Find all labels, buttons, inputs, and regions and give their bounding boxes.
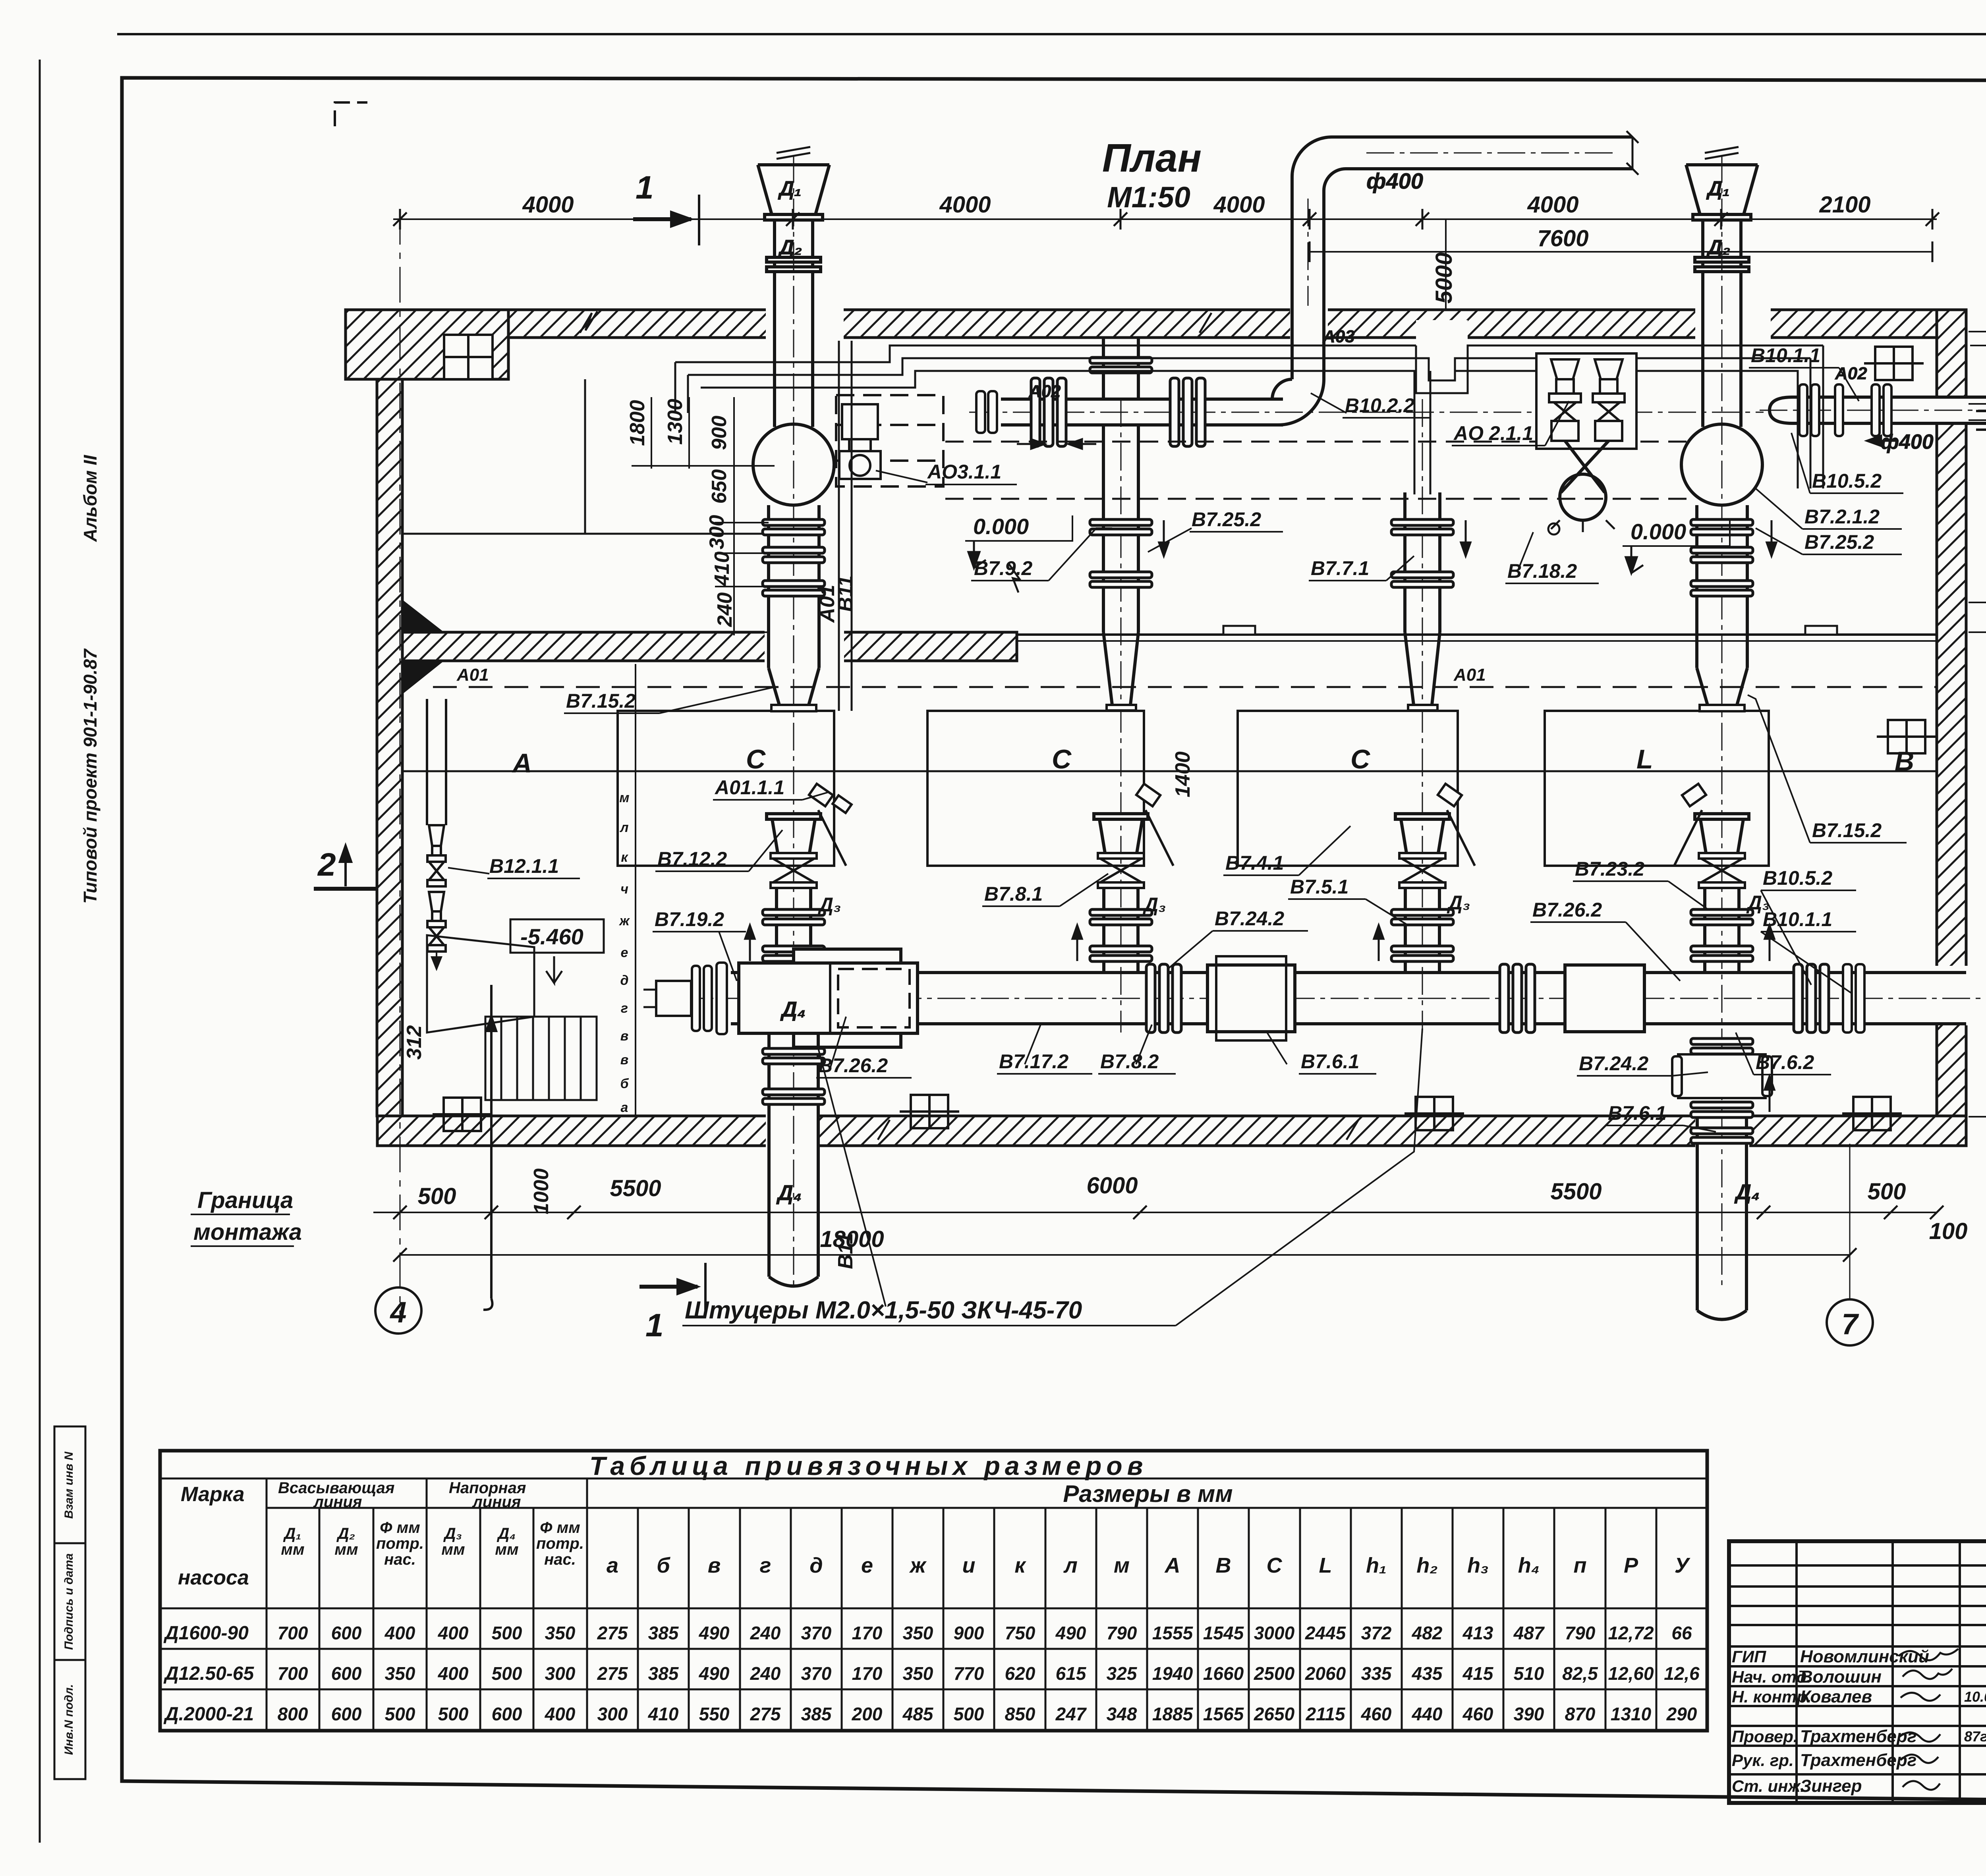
col2 riser from top pipe <box>1103 425 1138 632</box>
svg-text:400: 400 <box>438 1663 469 1684</box>
svg-text:в: в <box>620 1029 629 1044</box>
svg-text:4: 4 <box>389 1296 406 1329</box>
pump H1 volute circle <box>753 424 834 505</box>
shtutsery text <box>682 1029 1422 1326</box>
svg-text:500: 500 <box>438 1704 469 1724</box>
svg-text:0.000: 0.000 <box>1631 519 1686 544</box>
svg-text:А02: А02 <box>1835 364 1867 383</box>
table column letters <box>607 1554 1690 1577</box>
svg-text:B7.9.2: B7.9.2 <box>974 557 1033 579</box>
svg-text:М1:50: М1:50 <box>1107 181 1190 214</box>
col1 flange pair 3 <box>763 581 825 596</box>
svg-text:а: а <box>621 1100 628 1115</box>
svg-text:к: к <box>621 850 628 865</box>
bay rect C2 <box>927 711 1144 866</box>
svg-text:350: 350 <box>545 1623 576 1643</box>
label AO2.1.1 <box>1452 401 1569 446</box>
signature roles <box>1732 1647 1812 1795</box>
svg-text:490: 490 <box>1055 1623 1086 1643</box>
svg-text:B7.15.2: B7.15.2 <box>1812 819 1882 841</box>
col2 flange pair 4 <box>1090 909 1152 925</box>
label B12.1.1 <box>448 855 580 878</box>
svg-text:870: 870 <box>1565 1704 1596 1724</box>
svg-text:А01: А01 <box>456 665 489 685</box>
svg-text:нас.: нас. <box>384 1551 416 1568</box>
fitting AO3.1.1 <box>839 404 881 479</box>
svg-text:300: 300 <box>597 1704 628 1724</box>
dashed equipment lines <box>945 442 1694 499</box>
pump H4 axis <box>1721 155 1723 1287</box>
svg-text:Зингер: Зингер <box>1800 1776 1862 1796</box>
label B10.5.2 mid <box>1761 867 1856 985</box>
svg-text:413: 413 <box>1462 1623 1493 1643</box>
bottom dim line <box>373 1212 1937 1213</box>
svg-text:400: 400 <box>384 1623 415 1643</box>
svg-text:Д₂: Д₂ <box>1706 236 1730 259</box>
svg-text:312: 312 <box>403 1025 426 1060</box>
svg-text:Марка: Марка <box>181 1483 245 1506</box>
label B7.5.1 <box>1288 876 1408 925</box>
col2 axis <box>1121 399 1122 1033</box>
svg-text:ч: ч <box>620 882 628 897</box>
svg-text:460: 460 <box>1361 1704 1392 1724</box>
top wall <box>346 310 1966 338</box>
label B7.7.1 <box>1309 556 1414 581</box>
subheaders suction <box>281 1519 584 1568</box>
svg-text:Ф мм: Ф мм <box>380 1519 420 1536</box>
col4 flange pair below <box>1691 1128 1753 1143</box>
svg-text:п: п <box>1574 1554 1587 1577</box>
svg-text:66: 66 <box>1671 1623 1692 1643</box>
svg-text:615: 615 <box>1056 1663 1087 1684</box>
svg-text:460: 460 <box>1462 1704 1493 1724</box>
pump H1 axis <box>793 155 794 1287</box>
svg-text:C: C <box>746 744 766 774</box>
col2 flow arrow down <box>1159 520 1169 556</box>
col4 pipe bottom ellipse <box>1697 1310 1746 1320</box>
svg-text:500: 500 <box>492 1623 522 1643</box>
elevation 0.000 col1 <box>965 514 1072 593</box>
label B7.21.2 <box>1756 488 1902 529</box>
bottom wall gap col4 <box>1695 1114 1749 1148</box>
svg-text:240: 240 <box>750 1623 781 1643</box>
col3 flow arrow up <box>1374 925 1383 961</box>
svg-text:490: 490 <box>699 1663 730 1684</box>
svg-text:620: 620 <box>1005 1663 1036 1684</box>
stairs <box>485 1017 597 1100</box>
svg-text:B7.2.1.2: B7.2.1.2 <box>1804 506 1880 528</box>
svg-text:L: L <box>1319 1554 1332 1577</box>
svg-text:мм: мм <box>334 1541 358 1558</box>
right wall gap manifold <box>1934 966 1969 1025</box>
svg-text:385: 385 <box>801 1704 832 1724</box>
col2 pipe to manifold <box>1104 888 1138 973</box>
col3 flange pair 5 <box>1391 946 1453 961</box>
pedestal square right mid <box>1877 720 1936 753</box>
svg-text:г: г <box>621 1001 628 1016</box>
svg-text:А01.1.1: А01.1.1 <box>714 776 784 799</box>
svg-text:10.06: 10.06 <box>1964 1689 1986 1705</box>
svg-text:500: 500 <box>492 1663 522 1684</box>
signature names <box>1800 1647 1929 1796</box>
svg-text:6000: 6000 <box>1086 1173 1138 1199</box>
col3 flow arrow down <box>1461 520 1470 556</box>
suction/pressure data <box>278 1623 576 1643</box>
col2 flow arrow up <box>1072 925 1082 961</box>
svg-text:410: 410 <box>711 552 734 587</box>
svg-text:650: 650 <box>708 469 731 504</box>
col3 flange pair 2 <box>1391 572 1453 587</box>
svg-text:B10.1.1: B10.1.1 <box>1751 344 1820 367</box>
wall corner wedge lower <box>402 661 444 694</box>
svg-text:500: 500 <box>1868 1179 1906 1204</box>
col1 cone B7.15.2 <box>769 668 819 705</box>
col1 pipe to manifold <box>777 888 811 963</box>
col3 bell funnel <box>1395 814 1449 853</box>
pump H1 motor dashed outline <box>836 395 943 486</box>
svg-text:2500: 2500 <box>1254 1663 1295 1684</box>
table header lines <box>267 1507 1707 1509</box>
svg-text:372: 372 <box>1361 1623 1392 1643</box>
label B7.6.2 <box>1736 1033 1831 1075</box>
top dim line <box>393 218 1937 220</box>
svg-text:Д₃: Д₃ <box>1142 894 1166 916</box>
label AO3.1.1 <box>876 461 1017 484</box>
axis 4 extension line <box>400 209 401 1314</box>
svg-text:потр.: потр. <box>536 1535 584 1552</box>
svg-text:12,60: 12,60 <box>1608 1663 1654 1684</box>
label B10.5.2 right <box>1791 433 1903 493</box>
svg-text:B7.25.2: B7.25.2 <box>1804 531 1874 553</box>
svg-text:Типовой проект 901-1-90.87: Типовой проект 901-1-90.87 <box>80 648 100 904</box>
svg-text:монтажа: монтажа <box>193 1219 302 1245</box>
left riser B12.1.1 <box>427 699 446 969</box>
col4 lower pipe <box>1697 1118 1746 1310</box>
svg-text:C: C <box>1052 744 1072 774</box>
svg-text:h₃: h₃ <box>1467 1554 1489 1577</box>
svg-text:1: 1 <box>636 170 654 206</box>
svg-text:B10.2.2: B10.2.2 <box>1345 394 1414 417</box>
col1 lower pipe <box>769 1033 818 1277</box>
svg-text:А: А <box>1164 1554 1180 1577</box>
svg-text:План: План <box>1102 136 1202 180</box>
axis 7 extension line <box>1849 1144 1851 1299</box>
svg-text:1310: 1310 <box>1611 1704 1652 1724</box>
svg-text:500: 500 <box>418 1183 456 1209</box>
svg-text:385: 385 <box>648 1623 679 1643</box>
svg-text:B10.5.2: B10.5.2 <box>1763 867 1832 889</box>
svg-text:385: 385 <box>648 1663 679 1684</box>
pedestal square top right <box>1864 347 1924 380</box>
svg-text:1: 1 <box>645 1307 664 1343</box>
title block outer <box>1729 1541 1986 1803</box>
svg-text:435: 435 <box>1412 1663 1443 1684</box>
col1 suction funnel D1 <box>758 147 829 310</box>
label B7.19.2 <box>653 908 746 981</box>
manifold right couplings <box>1794 964 1829 1033</box>
svg-text:4000: 4000 <box>522 192 574 218</box>
svg-text:Инв.N подл.: Инв.N подл. <box>62 1684 75 1755</box>
svg-text:348: 348 <box>1107 1704 1137 1724</box>
svg-text:Д₁: Д₁ <box>283 1525 301 1542</box>
AO2.1.1 hydrant circle <box>1560 474 1606 520</box>
svg-text:700: 700 <box>278 1663 308 1684</box>
svg-text:2650: 2650 <box>1254 1704 1295 1724</box>
label B7.24.2 left <box>1168 907 1308 969</box>
left margin stamp boxes <box>54 1426 85 1779</box>
svg-text:и: и <box>962 1554 976 1577</box>
col4 pipe to manifold <box>1705 888 1739 973</box>
col4 suction funnel D1 <box>1686 147 1758 310</box>
col4 flow arrow down <box>1767 520 1776 556</box>
svg-text:415: 415 <box>1462 1663 1494 1684</box>
montage boundary line <box>483 985 496 1310</box>
svg-text:370: 370 <box>801 1663 832 1684</box>
svg-text:240: 240 <box>713 593 736 627</box>
svg-text:б: б <box>657 1554 670 1577</box>
grid circle 4 <box>375 1287 421 1334</box>
svg-text:325: 325 <box>1107 1663 1138 1684</box>
svg-text:482: 482 <box>1412 1623 1443 1643</box>
left wall <box>377 379 402 1116</box>
svg-text:АO3.1.1: АO3.1.1 <box>927 461 1001 483</box>
svg-text:C: C <box>1350 744 1370 774</box>
table data row 2 <box>597 1663 1700 1684</box>
col1 pipe bottom ellipse <box>769 1277 818 1286</box>
svg-text:Таблица привязочных раз: Таблица привязочных размеров <box>589 1451 1148 1480</box>
svg-text:170: 170 <box>852 1663 883 1684</box>
section mark 1 bottom <box>639 1263 705 1343</box>
svg-text:мм: мм <box>281 1541 304 1558</box>
svg-text:275: 275 <box>597 1623 628 1643</box>
svg-text:В: В <box>1216 1554 1231 1577</box>
label B7.18.2 <box>1505 532 1599 583</box>
middle wall gap col1 <box>765 630 844 663</box>
svg-text:б: б <box>620 1076 629 1091</box>
manifold junction box mid <box>1207 956 1295 1040</box>
svg-text:У: У <box>1675 1554 1690 1577</box>
right wall gap pipe B10.1.1 <box>1934 396 1969 425</box>
svg-text:h₁: h₁ <box>1366 1554 1387 1577</box>
svg-text:1300: 1300 <box>664 399 687 445</box>
svg-text:нас.: нас. <box>544 1551 576 1568</box>
elevation -5.460 box <box>510 919 604 983</box>
col3 pipe to manifold <box>1405 888 1439 973</box>
col4 below-manifold valve B7.24.2 <box>1672 1038 1772 1117</box>
section mark 1 top <box>633 170 699 245</box>
svg-text:12,72: 12,72 <box>1608 1623 1654 1643</box>
label B7.25.2 col2 <box>1148 508 1283 552</box>
svg-text:B7.25.2: B7.25.2 <box>1192 508 1261 531</box>
svg-text:300: 300 <box>705 515 728 550</box>
col1 flange pair 1 <box>763 519 825 535</box>
left dim chain col1 <box>632 397 775 635</box>
paper top edge <box>117 33 1986 35</box>
svg-text:0.000: 0.000 <box>973 514 1029 539</box>
top wall thick left part <box>346 310 508 379</box>
col3 cone <box>1405 632 1440 705</box>
corner cut mark left <box>335 102 367 126</box>
bottom wall <box>377 1116 1966 1146</box>
svg-text:h₂: h₂ <box>1416 1554 1438 1577</box>
svg-text:770: 770 <box>954 1663 984 1684</box>
svg-text:Ст. инж.: Ст. инж. <box>1732 1777 1805 1795</box>
col1 flow arrow up <box>745 925 755 961</box>
svg-text:200: 200 <box>852 1704 883 1724</box>
svg-text:300: 300 <box>545 1663 576 1684</box>
middle wall <box>402 632 1017 661</box>
svg-text:B7.17.2: B7.17.2 <box>999 1050 1068 1073</box>
svg-text:275: 275 <box>597 1663 628 1684</box>
svg-text:247: 247 <box>1055 1704 1087 1724</box>
elbow riser to wall <box>1292 311 1324 379</box>
svg-text:1565: 1565 <box>1203 1704 1244 1724</box>
A01 dashed line <box>433 686 1937 688</box>
svg-text:потр.: потр. <box>376 1535 424 1552</box>
svg-text:линия: линия <box>313 1493 362 1511</box>
pipe B10.1.1 top right <box>1760 387 1986 433</box>
svg-text:12,6: 12,6 <box>1664 1663 1700 1684</box>
svg-text:B7.19.2: B7.19.2 <box>655 908 724 930</box>
svg-text:790: 790 <box>1107 1623 1137 1643</box>
svg-text:4000: 4000 <box>939 192 991 218</box>
svg-text:600: 600 <box>331 1623 362 1643</box>
svg-text:B7.8.1: B7.8.1 <box>984 883 1043 905</box>
table data row 1 <box>597 1623 1692 1643</box>
col1 A01 drop lines <box>839 341 852 711</box>
svg-text:B7.26.2: B7.26.2 <box>1532 899 1602 921</box>
svg-text:B7.6.1: B7.6.1 <box>1608 1102 1666 1124</box>
svg-text:350: 350 <box>385 1663 415 1684</box>
col1 valve A01.1.1 <box>809 784 852 866</box>
label B7.6.1 left <box>1267 1033 1376 1074</box>
col2 butterfly valve <box>1098 853 1144 888</box>
coupling group 1 <box>1031 378 1066 446</box>
svg-text:600: 600 <box>331 1663 362 1684</box>
svg-text:1545: 1545 <box>1203 1623 1244 1643</box>
svg-text:а: а <box>607 1554 618 1577</box>
col1 discharge pipe <box>769 505 819 668</box>
col1 cone bottom flange <box>771 705 816 711</box>
marka values <box>163 1623 254 1725</box>
svg-text:240: 240 <box>750 1663 781 1684</box>
svg-text:Провер.: Провер. <box>1732 1727 1798 1746</box>
svg-text:Размеры в мм: Размеры в мм <box>1063 1480 1233 1507</box>
svg-text:1660: 1660 <box>1203 1663 1244 1684</box>
svg-text:Д₃: Д₃ <box>817 894 841 916</box>
stub to wall B <box>1969 401 1986 442</box>
top wall notch <box>1416 320 1468 340</box>
svg-text:500: 500 <box>385 1704 415 1724</box>
svg-text:5500: 5500 <box>610 1175 661 1201</box>
svg-text:Альбом II: Альбом II <box>80 455 100 542</box>
label B7.26.2 col1 <box>816 1017 912 1078</box>
col2 bell funnel <box>1094 814 1148 853</box>
svg-text:350: 350 <box>903 1623 933 1643</box>
svg-text:100: 100 <box>1929 1218 1968 1244</box>
col4 cone B7.15.2 <box>1697 668 1747 705</box>
svg-text:h₄: h₄ <box>1518 1554 1540 1577</box>
svg-text:Н. контр.: Н. контр. <box>1732 1687 1812 1706</box>
svg-text:3000: 3000 <box>1254 1623 1295 1643</box>
col3 flange pair 4 <box>1391 909 1453 925</box>
col4 butterfly valve <box>1699 853 1745 888</box>
svg-text:д: д <box>620 973 628 988</box>
svg-text:-5.460: -5.460 <box>520 924 583 949</box>
svg-text:Граница: Граница <box>197 1187 293 1213</box>
svg-text:487: 487 <box>1513 1623 1545 1643</box>
svg-text:750: 750 <box>1005 1623 1036 1643</box>
svg-text:Ф мм: Ф мм <box>540 1519 580 1536</box>
table title row <box>160 1478 1707 1480</box>
col1 bell funnel B7.12.2 <box>767 814 821 853</box>
col4 bell funnel <box>1695 814 1749 853</box>
left margin stamp labels <box>62 1451 75 1755</box>
pedestal squares <box>433 1098 492 1131</box>
manifold junction box mid2 <box>1565 965 1644 1032</box>
manifold left end cap <box>643 963 727 1034</box>
label B10.2.2 <box>1311 393 1430 418</box>
svg-text:1000: 1000 <box>530 1168 553 1214</box>
svg-text:B7.8.2: B7.8.2 <box>1100 1050 1159 1073</box>
second dim line 7600 <box>1310 251 1932 253</box>
svg-text:B7.5.1: B7.5.1 <box>1290 876 1348 898</box>
col4 discharge pipe <box>1697 505 1747 668</box>
svg-text:л: л <box>619 820 628 835</box>
svg-text:ж: ж <box>618 913 630 928</box>
svg-text:800: 800 <box>278 1704 308 1724</box>
elevation 0.000 col3 <box>1623 519 1730 573</box>
label B7.9.2 <box>971 528 1112 581</box>
svg-text:87г.: 87г. <box>1964 1728 1986 1745</box>
svg-text:900: 900 <box>708 416 731 450</box>
svg-text:4000: 4000 <box>1527 192 1578 218</box>
col4 flow arrow up lower <box>1765 1076 1774 1112</box>
svg-text:82,5: 82,5 <box>1562 1663 1598 1684</box>
wall corner wedge upper <box>402 600 444 632</box>
col4 flange pair 5 <box>1691 946 1753 961</box>
svg-text:600: 600 <box>331 1704 362 1724</box>
col1 flange pair 6 <box>763 1048 825 1064</box>
svg-text:370: 370 <box>801 1623 832 1643</box>
svg-text:Нач. отд.: Нач. отд. <box>1732 1668 1811 1686</box>
svg-text:Д1600-90: Д1600-90 <box>163 1623 249 1644</box>
svg-text:B7.23.2: B7.23.2 <box>1575 858 1644 880</box>
col3 fire valves AO2.1.1 <box>1536 353 1636 449</box>
col1 flange pair 2 <box>763 547 825 563</box>
svg-text:Д₄: Д₄ <box>776 1181 802 1205</box>
col4 flange pair 1 <box>1691 519 1753 535</box>
svg-text:B10.1.1: B10.1.1 <box>1763 908 1832 930</box>
floor line upper hall <box>402 533 765 535</box>
svg-text:335: 335 <box>1361 1663 1392 1684</box>
svg-text:1940: 1940 <box>1152 1663 1193 1684</box>
svg-text:в: в <box>708 1554 721 1577</box>
svg-text:А01: А01 <box>1453 665 1486 685</box>
svg-text:900: 900 <box>954 1623 984 1643</box>
col3 riser <box>1405 492 1440 632</box>
svg-text:B7.4.1: B7.4.1 <box>1225 852 1284 874</box>
svg-text:Д₂: Д₂ <box>778 236 802 259</box>
svg-text:550: 550 <box>699 1704 730 1724</box>
col1 flange pair 7 <box>763 1089 825 1104</box>
svg-text:АO 2.1.1: АO 2.1.1 <box>1453 422 1533 444</box>
label B7.17.2 <box>997 1025 1092 1074</box>
svg-text:Д₁: Д₁ <box>1706 177 1730 200</box>
svg-text:г: г <box>760 1554 771 1577</box>
bottom wall gap col1 <box>766 1114 820 1148</box>
col3 flange pair 1 <box>1391 519 1453 535</box>
